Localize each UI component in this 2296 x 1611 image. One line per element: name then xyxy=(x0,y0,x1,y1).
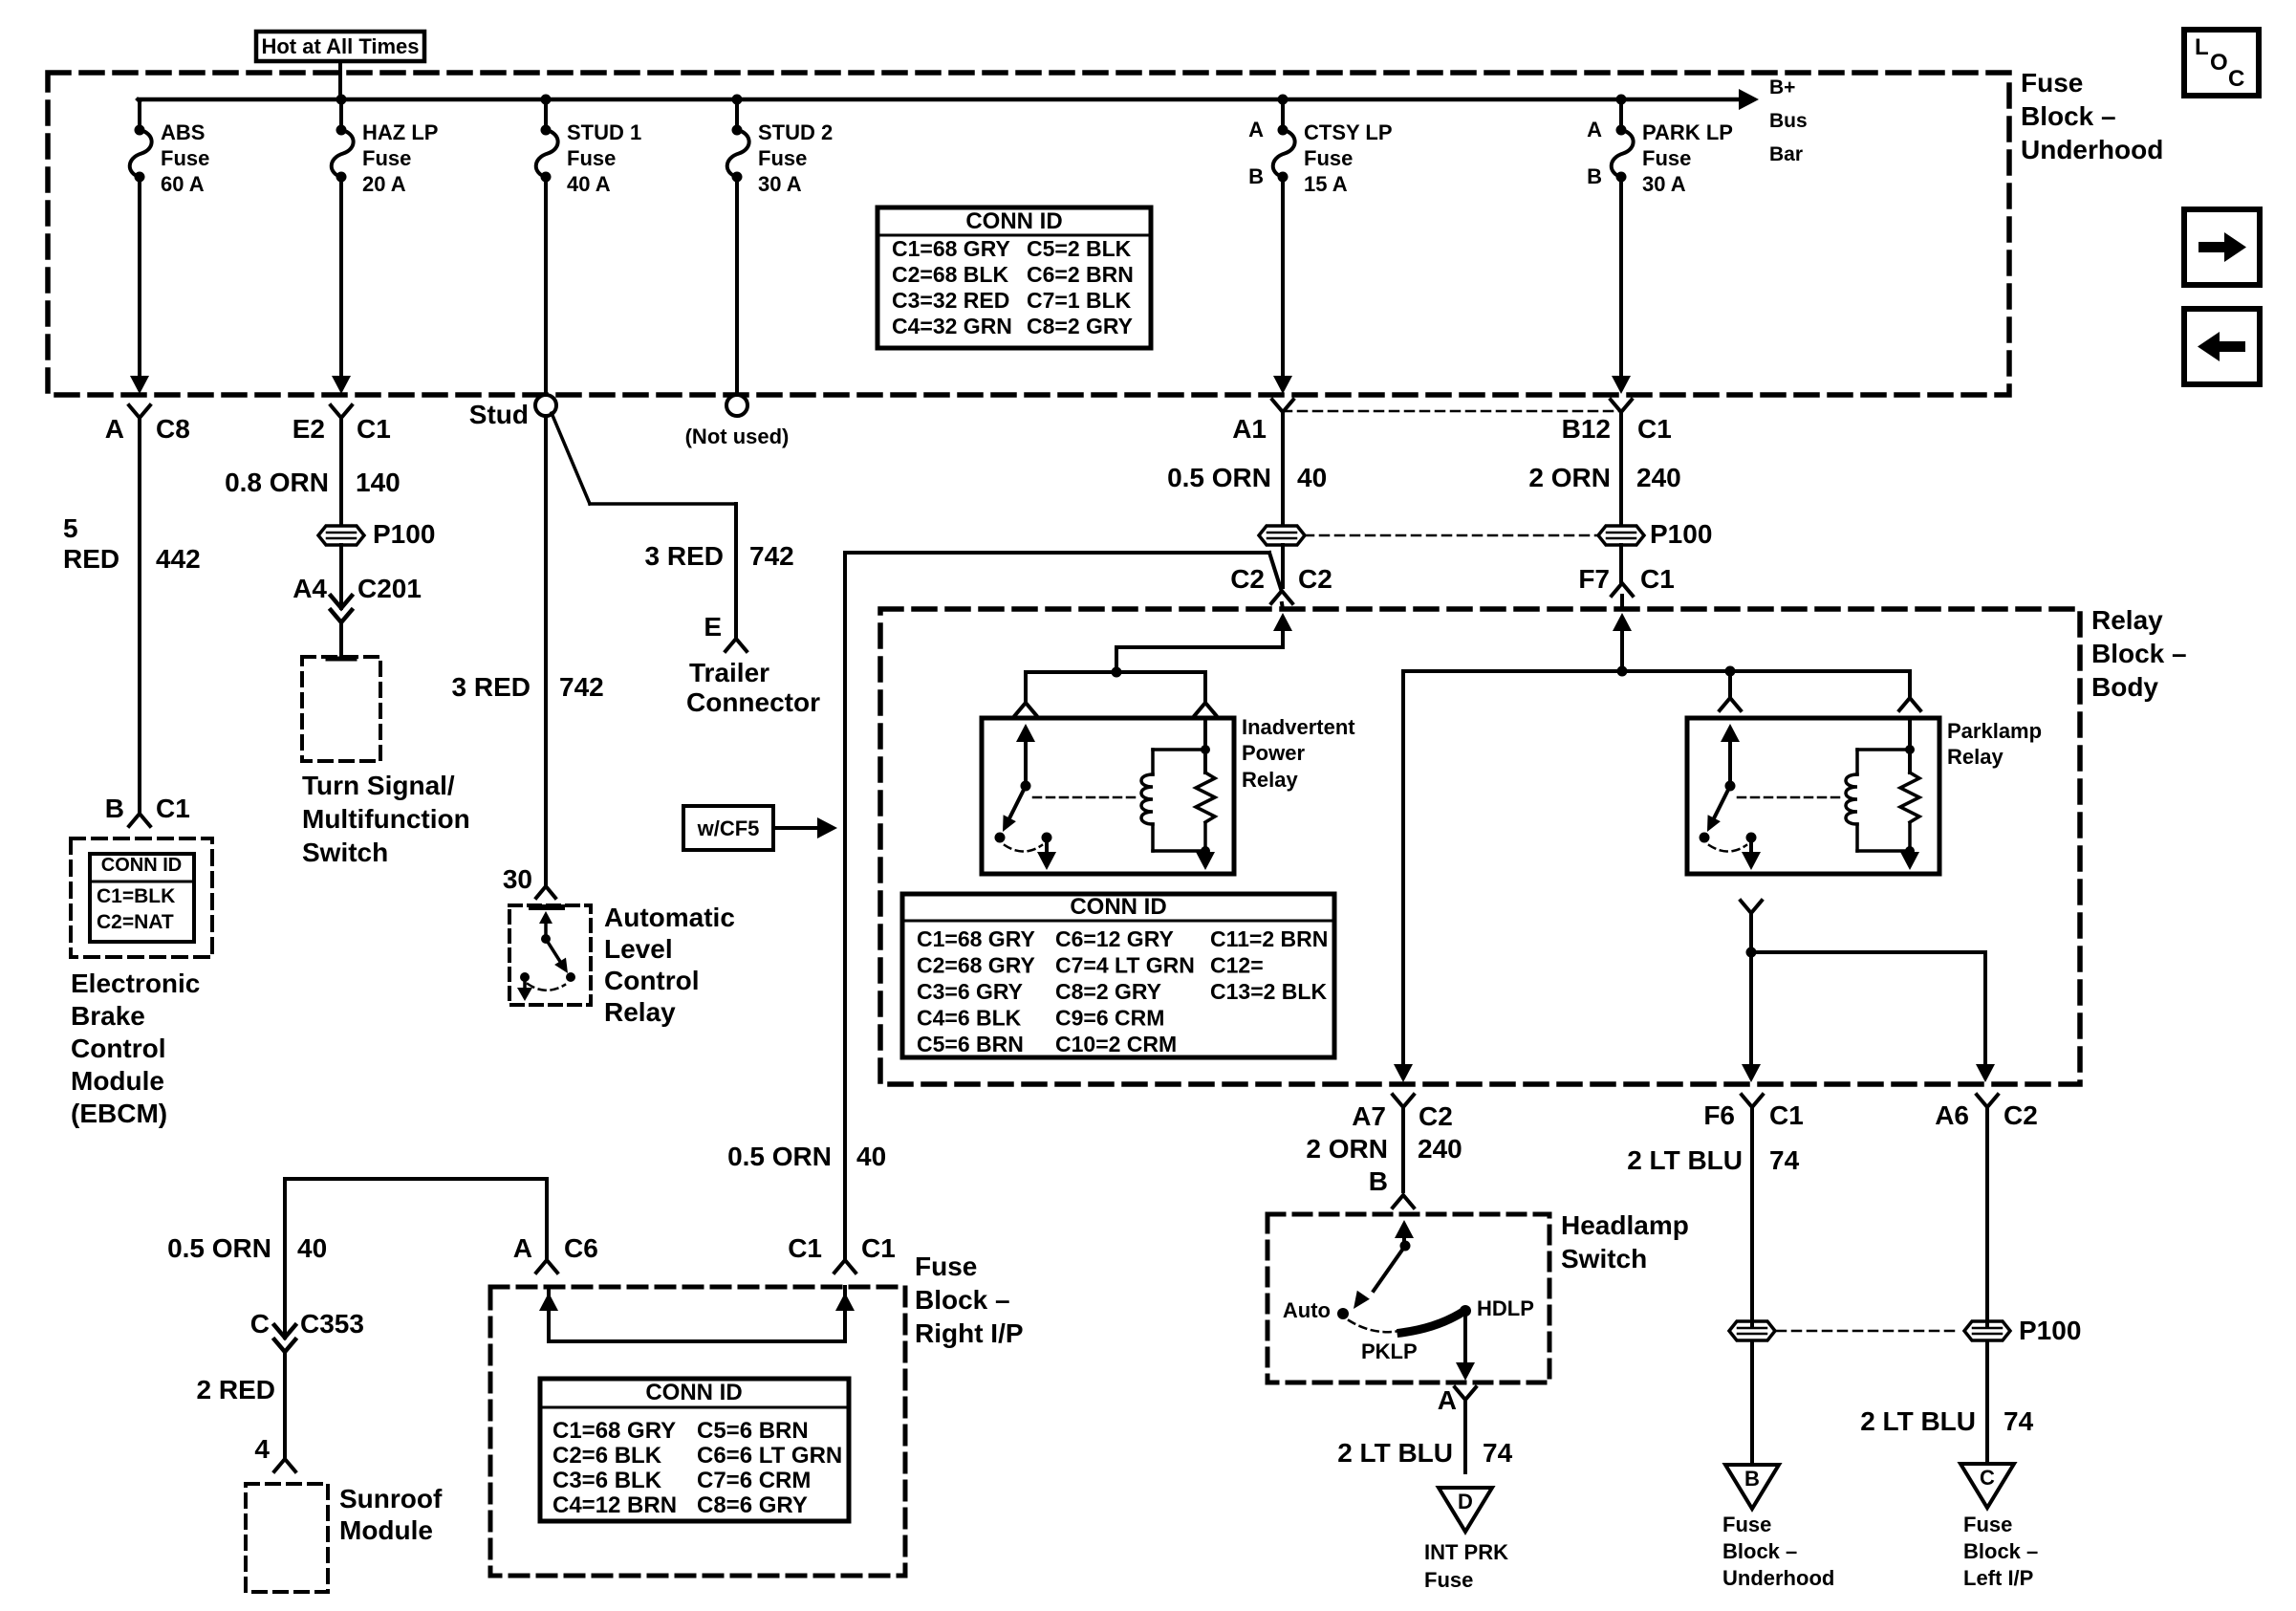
svg-text:E2: E2 xyxy=(292,414,325,444)
svg-text:Underhood: Underhood xyxy=(2021,135,2163,164)
svg-text:C4=12 BRN: C4=12 BRN xyxy=(552,1492,677,1518)
svg-text:C8=2 GRY: C8=2 GRY xyxy=(1027,314,1133,338)
svg-text:C6: C6 xyxy=(564,1233,598,1263)
svg-text:Turn Signal/: Turn Signal/ xyxy=(302,771,455,800)
svg-text:Switch: Switch xyxy=(302,838,388,867)
svg-text:Switch: Switch xyxy=(1561,1244,1647,1274)
svg-text:P100: P100 xyxy=(2019,1316,2081,1345)
svg-text:C12=: C12= xyxy=(1210,953,1264,978)
svg-text:C2: C2 xyxy=(1419,1101,1453,1131)
svg-text:Brake: Brake xyxy=(71,1001,145,1031)
svg-text:C6=6 LT GRN: C6=6 LT GRN xyxy=(697,1443,842,1469)
svg-text:Fuse: Fuse xyxy=(1304,146,1353,170)
svg-text:40 A: 40 A xyxy=(567,172,611,196)
svg-text:CONN ID: CONN ID xyxy=(645,1380,742,1405)
svg-text:C6=12 GRY: C6=12 GRY xyxy=(1055,926,1174,951)
svg-text:30 A: 30 A xyxy=(758,172,802,196)
svg-text:Electronic: Electronic xyxy=(71,969,200,998)
svg-text:Relay: Relay xyxy=(1242,768,1298,792)
svg-text:Control: Control xyxy=(604,966,700,995)
svg-text:Left I/P: Left I/P xyxy=(1963,1566,2033,1590)
svg-text:C8=2 GRY: C8=2 GRY xyxy=(1055,979,1161,1004)
svg-text:C1: C1 xyxy=(156,794,190,823)
svg-text:C11=2 BRN: C11=2 BRN xyxy=(1210,926,1328,951)
svg-text:PARK LP: PARK LP xyxy=(1642,120,1733,144)
svg-text:B: B xyxy=(1248,164,1264,188)
svg-text:P100: P100 xyxy=(373,519,435,549)
svg-text:Block –: Block – xyxy=(2091,639,2187,668)
svg-text:C5=6 BRN: C5=6 BRN xyxy=(917,1032,1024,1056)
svg-text:CONN ID: CONN ID xyxy=(1070,894,1166,920)
svg-text:F7: F7 xyxy=(1578,564,1610,594)
svg-text:C1=68 GRY: C1=68 GRY xyxy=(892,236,1010,261)
svg-text:w/CF5: w/CF5 xyxy=(697,816,760,840)
svg-text:Auto: Auto xyxy=(1283,1298,1331,1322)
svg-text:3 RED: 3 RED xyxy=(645,541,724,571)
svg-text:2 ORN: 2 ORN xyxy=(1306,1134,1388,1164)
svg-text:B+: B+ xyxy=(1769,76,1795,98)
svg-text:74: 74 xyxy=(2004,1406,2034,1436)
svg-text:0.5 ORN: 0.5 ORN xyxy=(1167,463,1271,492)
svg-text:C2=6 BLK: C2=6 BLK xyxy=(552,1443,662,1469)
svg-text:B: B xyxy=(105,794,124,823)
svg-text:C4=6 BLK: C4=6 BLK xyxy=(917,1006,1022,1031)
svg-text:B12: B12 xyxy=(1562,414,1611,444)
svg-text:C6=2 BRN: C6=2 BRN xyxy=(1027,262,1134,287)
svg-text:4: 4 xyxy=(254,1434,270,1464)
svg-text:74: 74 xyxy=(1769,1145,1800,1175)
svg-text:HAZ LP: HAZ LP xyxy=(362,120,438,144)
svg-text:C2=NAT: C2=NAT xyxy=(97,911,174,933)
svg-text:PKLP: PKLP xyxy=(1361,1339,1418,1363)
svg-text:C8: C8 xyxy=(156,414,190,444)
svg-text:C: C xyxy=(250,1309,270,1339)
svg-text:D: D xyxy=(1458,1490,1473,1513)
svg-text:C10=2 CRM: C10=2 CRM xyxy=(1055,1032,1177,1056)
svg-text:Control: Control xyxy=(71,1034,166,1063)
svg-text:C3=6 BLK: C3=6 BLK xyxy=(552,1468,662,1493)
svg-text:C1: C1 xyxy=(1640,564,1675,594)
svg-text:Right I/P: Right I/P xyxy=(915,1318,1024,1348)
svg-text:Bus: Bus xyxy=(1769,110,1808,132)
svg-text:30 A: 30 A xyxy=(1642,172,1686,196)
svg-text:C1=BLK: C1=BLK xyxy=(97,885,175,907)
svg-text:Fuse: Fuse xyxy=(1722,1513,1771,1536)
svg-text:(EBCM): (EBCM) xyxy=(71,1099,167,1128)
svg-text:Block –: Block – xyxy=(2021,101,2116,131)
svg-text:2 LT BLU: 2 LT BLU xyxy=(1860,1406,1976,1436)
svg-text:B: B xyxy=(1369,1166,1388,1196)
svg-text:C1: C1 xyxy=(788,1233,822,1263)
svg-text:60 A: 60 A xyxy=(161,172,205,196)
svg-text:RED: RED xyxy=(63,544,119,574)
svg-text:Hot at All Times: Hot at All Times xyxy=(261,34,419,58)
svg-text:A1: A1 xyxy=(1232,414,1267,444)
svg-text:HDLP: HDLP xyxy=(1477,1296,1534,1320)
svg-text:Fuse: Fuse xyxy=(915,1252,977,1281)
svg-text:Power: Power xyxy=(1242,741,1305,765)
svg-text:O: O xyxy=(2210,50,2228,76)
svg-text:Inadvertent: Inadvertent xyxy=(1242,715,1355,739)
svg-text:Multifunction: Multifunction xyxy=(302,804,470,834)
svg-text:F6: F6 xyxy=(1703,1100,1735,1130)
svg-text:C7=6 CRM: C7=6 CRM xyxy=(697,1468,811,1493)
svg-text:CTSY LP: CTSY LP xyxy=(1304,120,1393,144)
svg-text:A: A xyxy=(1587,118,1602,142)
svg-text:B: B xyxy=(1587,164,1602,188)
svg-text:C: C xyxy=(1980,1466,1995,1490)
svg-text:STUD 1: STUD 1 xyxy=(567,120,641,144)
svg-text:0.8 ORN: 0.8 ORN xyxy=(225,468,329,497)
svg-text:Relay: Relay xyxy=(1947,745,2004,769)
svg-text:C1: C1 xyxy=(1769,1100,1804,1130)
svg-text:C: C xyxy=(2228,66,2244,92)
svg-text:C7=4 LT GRN: C7=4 LT GRN xyxy=(1055,953,1195,978)
svg-text:C2: C2 xyxy=(1298,564,1332,594)
svg-text:Module: Module xyxy=(339,1515,433,1545)
svg-text:C5=6 BRN: C5=6 BRN xyxy=(697,1418,809,1444)
svg-text:20 A: 20 A xyxy=(362,172,406,196)
svg-text:STUD 2: STUD 2 xyxy=(758,120,833,144)
svg-text:A6: A6 xyxy=(1935,1100,1969,1130)
svg-text:742: 742 xyxy=(559,672,604,702)
svg-text:Connector: Connector xyxy=(686,687,820,717)
svg-text:C8=6 GRY: C8=6 GRY xyxy=(697,1492,808,1518)
svg-text:74: 74 xyxy=(1483,1438,1513,1468)
svg-text:Fuse: Fuse xyxy=(758,146,807,170)
svg-text:Fuse: Fuse xyxy=(567,146,616,170)
svg-text:C13=2 BLK: C13=2 BLK xyxy=(1210,979,1327,1004)
svg-text:C353: C353 xyxy=(300,1309,364,1339)
svg-text:A: A xyxy=(1438,1385,1457,1415)
svg-text:40: 40 xyxy=(297,1233,327,1263)
svg-text:Underhood: Underhood xyxy=(1722,1566,1834,1590)
svg-text:Level: Level xyxy=(604,934,673,964)
svg-text:240: 240 xyxy=(1418,1134,1462,1164)
svg-text:C201: C201 xyxy=(357,574,422,603)
svg-text:30: 30 xyxy=(503,864,532,894)
svg-text:Automatic: Automatic xyxy=(604,903,735,932)
svg-text:2 RED: 2 RED xyxy=(197,1375,275,1404)
svg-text:Body: Body xyxy=(2091,672,2158,702)
svg-text:A7: A7 xyxy=(1352,1101,1386,1131)
svg-text:C4=32 GRN: C4=32 GRN xyxy=(892,314,1012,338)
svg-text:ABS: ABS xyxy=(161,120,205,144)
svg-text:40: 40 xyxy=(856,1142,886,1171)
svg-text:L: L xyxy=(2195,34,2209,60)
svg-text:Fuse: Fuse xyxy=(1963,1513,2012,1536)
svg-text:40: 40 xyxy=(1297,463,1327,492)
svg-text:A4: A4 xyxy=(292,574,327,603)
svg-text:C3=6 GRY: C3=6 GRY xyxy=(917,979,1023,1004)
svg-text:E: E xyxy=(704,612,722,642)
svg-text:B: B xyxy=(1744,1467,1760,1491)
svg-text:2 LT BLU: 2 LT BLU xyxy=(1627,1145,1743,1175)
svg-text:Fuse: Fuse xyxy=(362,146,411,170)
svg-text:Relay: Relay xyxy=(2091,605,2163,635)
svg-text:Relay: Relay xyxy=(604,997,676,1027)
svg-text:CONN ID: CONN ID xyxy=(965,208,1062,234)
svg-text:Block –: Block – xyxy=(915,1285,1010,1315)
svg-text:A: A xyxy=(105,414,124,444)
svg-text:C3=32 RED: C3=32 RED xyxy=(892,288,1009,313)
svg-text:C2: C2 xyxy=(2004,1100,2038,1130)
svg-text:Block –: Block – xyxy=(1722,1539,1797,1563)
svg-text:2 ORN: 2 ORN xyxy=(1528,463,1611,492)
svg-text:Fuse: Fuse xyxy=(1642,146,1691,170)
svg-text:Fuse: Fuse xyxy=(1424,1568,1473,1592)
svg-text:15 A: 15 A xyxy=(1304,172,1348,196)
svg-text:P100: P100 xyxy=(1650,519,1712,549)
svg-text:C1: C1 xyxy=(861,1233,896,1263)
svg-text:Module: Module xyxy=(71,1066,164,1096)
svg-text:C5=2 BLK: C5=2 BLK xyxy=(1027,236,1132,261)
svg-text:A: A xyxy=(513,1233,532,1263)
svg-text:C1: C1 xyxy=(357,414,391,444)
svg-text:Trailer: Trailer xyxy=(689,658,769,687)
svg-text:A: A xyxy=(1248,118,1264,142)
svg-text:C7=1 BLK: C7=1 BLK xyxy=(1027,288,1132,313)
svg-text:INT PRK: INT PRK xyxy=(1424,1540,1508,1564)
svg-text:Bar: Bar xyxy=(1769,143,1803,165)
svg-text:CONN ID: CONN ID xyxy=(101,855,182,876)
svg-text:Fuse: Fuse xyxy=(161,146,209,170)
svg-text:5: 5 xyxy=(63,513,78,543)
svg-text:240: 240 xyxy=(1636,463,1681,492)
svg-text:C2=68 BLK: C2=68 BLK xyxy=(892,262,1008,287)
svg-text:3 RED: 3 RED xyxy=(452,672,531,702)
svg-text:Stud: Stud xyxy=(469,400,529,429)
svg-text:C2: C2 xyxy=(1230,564,1265,594)
svg-text:0.5 ORN: 0.5 ORN xyxy=(727,1142,832,1171)
svg-text:Sunroof: Sunroof xyxy=(339,1484,443,1513)
svg-text:Parklamp: Parklamp xyxy=(1947,719,2042,743)
svg-text:2 LT BLU: 2 LT BLU xyxy=(1337,1438,1453,1468)
svg-text:Block –: Block – xyxy=(1963,1539,2038,1563)
svg-text:C1: C1 xyxy=(1637,414,1672,444)
svg-text:C9=6 CRM: C9=6 CRM xyxy=(1055,1006,1164,1031)
svg-text:140: 140 xyxy=(356,468,401,497)
svg-text:0.5 ORN: 0.5 ORN xyxy=(167,1233,271,1263)
svg-text:C1=68 GRY: C1=68 GRY xyxy=(552,1418,676,1444)
svg-text:(Not used): (Not used) xyxy=(685,425,790,448)
svg-text:Fuse: Fuse xyxy=(2021,68,2083,98)
svg-text:Headlamp: Headlamp xyxy=(1561,1210,1689,1240)
svg-text:742: 742 xyxy=(749,541,794,571)
svg-text:442: 442 xyxy=(156,544,201,574)
svg-text:C2=68 GRY: C2=68 GRY xyxy=(917,953,1035,978)
svg-text:C1=68 GRY: C1=68 GRY xyxy=(917,926,1035,951)
